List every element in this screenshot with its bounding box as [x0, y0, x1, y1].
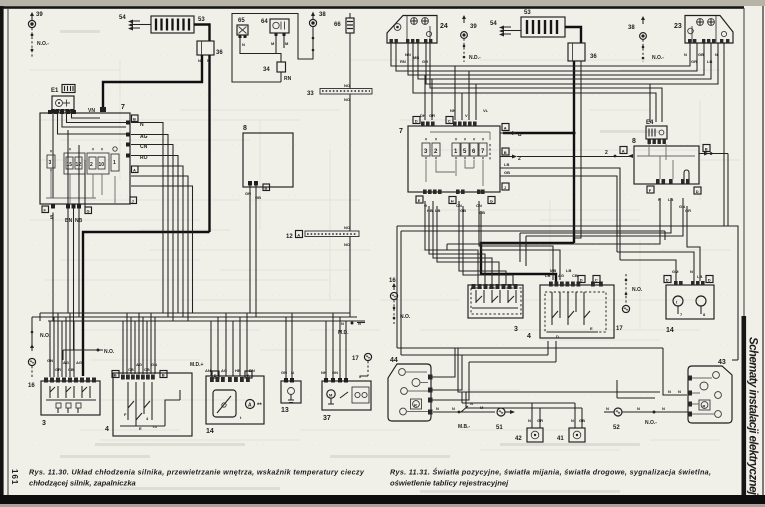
svg-text:CB: CB	[144, 367, 150, 372]
wires from cluster 7 right pins	[131, 123, 178, 322]
pin B out of unit 8 (right)	[699, 145, 728, 227]
wire drop E4 third	[649, 84, 651, 122]
bus wire 84 (right)	[426, 48, 718, 84]
svg-text:N: N	[606, 406, 609, 411]
svg-text:GB: GB	[579, 418, 585, 423]
svg-text:34: 34	[263, 67, 270, 73]
wires dropping into gauge unit 14	[190, 313, 255, 376]
number plate lamp bus wires	[458, 348, 660, 408]
svg-text:N: N	[668, 389, 671, 394]
wire GN from cluster 7 to loop (right)	[500, 162, 620, 260]
wires from unit 8 down	[250, 186, 256, 318]
svg-text:E: E	[418, 198, 421, 203]
svg-text:17: 17	[616, 326, 623, 332]
gauge 2 and 10 in cluster	[89, 157, 105, 169]
headlamp dimmer switch 4 (right)	[527, 268, 614, 340]
svg-text:39: 39	[36, 12, 43, 18]
svg-text:4: 4	[105, 426, 109, 433]
svg-text:51: 51	[496, 425, 503, 431]
connector 54 (left)	[119, 15, 151, 31]
svg-text:C: C	[448, 119, 451, 124]
svg-text:M.D.: M.D.	[338, 330, 349, 336]
pin J of cluster 7	[130, 197, 137, 204]
bulkhead strip 12-A (left)	[286, 231, 359, 241]
wires E1 into cluster 7	[53, 114, 126, 199]
svg-text:N: N	[690, 269, 693, 274]
control unit 8 (left)	[243, 125, 293, 200]
svg-text:16: 16	[28, 383, 35, 389]
fuse 34	[263, 62, 292, 82]
svg-text:GR: GR	[429, 113, 435, 118]
pin row CN on cluster 7	[126, 143, 148, 151]
license lamp 41	[557, 403, 585, 442]
svg-text:GR: GR	[55, 367, 61, 372]
svg-text:GB: GB	[504, 170, 510, 175]
svg-text:LB: LB	[545, 273, 550, 278]
svg-text:N.O.: N.O.	[40, 333, 51, 339]
svg-text:H: H	[451, 199, 454, 204]
svg-text:BN: BN	[65, 218, 73, 224]
svg-text:43: 43	[718, 359, 726, 366]
svg-text:Rys. 11.31. Światła pozycyjne,: Rys. 11.31. Światła pozycyjne, światła m…	[390, 468, 711, 477]
relay 64	[261, 19, 289, 36]
svg-text:GN: GN	[151, 362, 157, 367]
wires from cluster 7 bottom pins down	[53, 130, 85, 350]
svg-text:N: N	[198, 58, 201, 63]
caption Rys. 11.31	[390, 468, 711, 488]
svg-text:N.O.: N.O.	[104, 349, 115, 355]
sender 17 (right)	[616, 274, 643, 332]
connector 36 (left)	[197, 41, 223, 63]
svg-text:C: C	[595, 278, 598, 283]
svg-text:NO: NO	[344, 97, 350, 102]
svg-text:V: V	[465, 113, 468, 118]
svg-text:AG: AG	[63, 360, 69, 365]
svg-text:7: 7	[399, 128, 403, 135]
svg-text:oświetlenie tablicy rejestracy: oświetlenie tablicy rejestracyjnej	[390, 479, 509, 488]
pin wires below 23	[684, 43, 724, 64]
thick wire 36 to pin VN of cluster 7	[103, 55, 202, 107]
svg-text:NO: NO	[344, 83, 350, 88]
svg-text:GN: GN	[332, 370, 338, 375]
page number 161	[10, 469, 19, 485]
thick wire 36 down to bus (left)	[208, 55, 210, 232]
dip switch 3 (right)	[468, 284, 523, 333]
svg-text:38: 38	[628, 25, 635, 31]
svg-text:NN: NN	[450, 108, 456, 113]
bottom pins of cluster 7	[42, 204, 92, 224]
svg-text:N: N	[678, 389, 681, 394]
sidebar title Schematy instalacji elektrycznej	[747, 337, 759, 496]
connector pins of E1	[51, 109, 74, 114]
svg-text:AG: AG	[136, 362, 142, 367]
headlamp unit 23 (right side)	[674, 16, 733, 44]
svg-text:R: R	[703, 404, 706, 409]
svg-text:8: 8	[632, 138, 636, 145]
wire bus left ends to sender 16	[32, 313, 40, 345]
svg-text:24: 24	[440, 23, 448, 30]
svg-text:N: N	[358, 321, 361, 326]
svg-text:**: **	[257, 403, 262, 409]
headlamp unit 24 (left side)	[387, 16, 448, 44]
svg-text:NN: NN	[321, 370, 327, 375]
svg-text:N: N	[571, 418, 574, 423]
blower fan 37	[322, 378, 371, 422]
internal routing of cluster 7 (right)	[426, 132, 490, 186]
wire drops into cluster 7 top (right)	[420, 66, 489, 120]
wires cluster 7 to switch 3 (right)	[425, 201, 499, 285]
svg-text:GB: GB	[698, 52, 704, 57]
svg-text:M.B.-: M.B.-	[458, 424, 471, 430]
long bus wire y231 (right)	[401, 231, 665, 355]
svg-text:E4: E4	[646, 120, 654, 126]
switch positions 3 2 in cluster (right)	[422, 138, 440, 161]
wire N into 43	[617, 380, 655, 398]
wires dropping into switch 3	[47, 313, 82, 377]
pin wires below 24	[391, 43, 430, 64]
svg-text:10: 10	[99, 162, 105, 168]
svg-text:8: 8	[243, 125, 247, 132]
connector 36 (right)	[568, 43, 597, 61]
svg-text:N: N	[637, 406, 640, 411]
bus wire 93 to E4 (right)	[413, 48, 656, 122]
electric fan E1	[51, 85, 75, 111]
svg-text:A: A	[504, 126, 507, 131]
svg-text:A: A	[622, 149, 625, 154]
svg-text:A: A	[248, 403, 252, 409]
svg-text:HB: HB	[235, 368, 241, 373]
svg-text:LB: LB	[707, 59, 712, 64]
pin A into unit 8 (right)	[517, 147, 633, 159]
wire GB from cluster 7 to loop (right)	[500, 170, 617, 252]
svg-text:54: 54	[119, 15, 126, 21]
svg-text:14: 14	[206, 428, 214, 435]
lamp unit 14 (right)	[664, 269, 714, 334]
lighter element 66	[334, 13, 354, 33]
connector 54 (right)	[490, 21, 521, 37]
svg-text:53: 53	[524, 10, 531, 16]
wires dropping into fan unit 37	[321, 313, 346, 378]
svg-text:CB: CB	[572, 273, 578, 278]
svg-text:J: J	[504, 185, 506, 190]
svg-text:D: D	[415, 119, 418, 124]
svg-text:MB: MB	[550, 268, 556, 273]
svg-text:RN: RN	[284, 76, 292, 82]
svg-text:N: N	[684, 52, 687, 57]
wire N.O. marker below 39 (left)	[31, 28, 50, 58]
thermal fuse E4	[646, 120, 667, 144]
thick bus wire to switch 3 (left)	[83, 232, 210, 376]
svg-text:36: 36	[590, 54, 597, 60]
svg-text:N.O.-: N.O.-	[37, 41, 49, 47]
svg-text:LB: LB	[697, 274, 702, 279]
bottom pins of cluster 7 (right)	[416, 190, 495, 216]
svg-text:B: B	[162, 373, 165, 378]
svg-text:36: 36	[216, 50, 223, 56]
wires from unit 8 down left (right)	[447, 198, 700, 281]
lamp 1 in cluster	[111, 147, 119, 171]
svg-text:GR: GR	[685, 208, 691, 213]
svg-text:J: J	[132, 199, 134, 204]
pin B of cluster 7 (right)	[500, 148, 521, 162]
number plate lamp circuit wire	[433, 401, 495, 430]
svg-text:1: 1	[113, 160, 116, 166]
long bus wire y226 (right)	[397, 48, 738, 360]
relay 65	[237, 18, 248, 38]
svg-text:2: 2	[605, 150, 608, 156]
switch positions 1 5 6 7 in cluster (right)	[452, 138, 487, 161]
svg-text:E1: E1	[51, 88, 59, 94]
svg-text:GR: GR	[422, 59, 428, 64]
interior lamp 51	[496, 408, 515, 431]
svg-text:D: D	[580, 278, 583, 283]
bus wire 66 lamps (right)	[391, 48, 690, 66]
svg-text:B: B	[114, 373, 117, 378]
svg-text:33: 33	[307, 91, 314, 97]
svg-text:N: N	[291, 370, 294, 375]
svg-text:64: 64	[261, 19, 268, 25]
fuse box 53 (right)	[521, 10, 565, 37]
svg-text:AG: AG	[221, 368, 227, 373]
wire strip 12 down to bus	[344, 225, 350, 317]
gauge unit 14 (left)	[206, 371, 264, 435]
pin row RO on cluster 7	[126, 154, 148, 162]
bottom pins of unit 8 (right)	[647, 179, 701, 213]
cigarette lighter 13	[281, 378, 301, 414]
pin VN on cluster 7	[88, 107, 106, 114]
svg-text:N.D.-: N.D.-	[469, 55, 481, 61]
svg-text:M.D.+: M.D.+	[190, 362, 204, 368]
top pins of cluster 7	[48, 110, 76, 114]
svg-text:N.O.-: N.O.-	[645, 420, 657, 426]
pin row N on cluster 7	[126, 121, 144, 129]
svg-text:N: N	[662, 406, 665, 411]
svg-text:NO: NO	[344, 242, 350, 247]
internals of unit 8 (right)	[637, 144, 695, 179]
sender 16 (right)	[389, 278, 411, 324]
tail lamp unit 43	[688, 359, 733, 423]
license lamp 42	[515, 403, 543, 442]
svg-text:GB: GB	[479, 210, 485, 215]
battery feed 38 (right)	[628, 16, 664, 62]
caption Rys. 11.30	[29, 468, 365, 488]
bulkhead strip 33 (left)	[307, 89, 372, 98]
fuse box 53 (left)	[151, 16, 205, 33]
battery feed 39 (left)	[28, 12, 43, 28]
wire into 52 from left	[604, 406, 614, 412]
svg-text:2: 2	[90, 162, 93, 168]
svg-text:B: B	[705, 147, 708, 152]
svg-text:12: 12	[286, 234, 293, 240]
bus wire 75 (right)	[408, 48, 704, 75]
svg-text:42: 42	[515, 436, 522, 442]
svg-text:DH: DH	[420, 113, 426, 118]
svg-text:B: B	[133, 117, 136, 122]
wire 66 down through strip 33	[344, 33, 350, 232]
svg-text:16: 16	[389, 278, 396, 284]
svg-text:23: 23	[674, 23, 682, 30]
svg-text:D: D	[696, 189, 699, 194]
svg-text:15: 15	[67, 162, 73, 168]
wire from bus 43 top	[732, 359, 738, 361]
pin A of cluster 7 (right)	[500, 124, 522, 139]
svg-text:13: 13	[281, 407, 289, 414]
gauge 3 in cluster	[47, 150, 55, 173]
svg-text:7: 7	[121, 104, 125, 111]
svg-text:CB: CB	[68, 367, 74, 372]
svg-text:Schematy instalacji elektryczn: Schematy instalacji elektrycznej	[747, 337, 759, 496]
wire loop to lamp unit 14 (right)	[620, 260, 676, 281]
svg-text:53: 53	[198, 17, 205, 23]
sender 17 (left)	[352, 353, 372, 378]
svg-text:CB: CB	[128, 367, 134, 372]
instrument cluster 7 (left)	[40, 104, 138, 204]
gauge 15 and 12 in cluster	[66, 157, 82, 169]
svg-text:R: R	[414, 403, 417, 408]
svg-text:44: 44	[390, 357, 398, 364]
wires relay 64 down	[271, 36, 289, 54]
svg-text:G: G	[490, 199, 493, 204]
loop wire y355 (right)	[401, 341, 548, 390]
loop wires feeding tail lamp 44	[397, 348, 687, 395]
bus wire 88 to E4 (right)	[430, 48, 662, 122]
svg-text:N: N	[436, 406, 439, 411]
light switch cluster 7 (right)	[399, 117, 500, 193]
svg-text:E: E	[139, 426, 142, 431]
svg-text:54: 54	[490, 21, 497, 27]
svg-text:N: N	[341, 321, 344, 326]
svg-text:GN: GN	[47, 358, 53, 363]
svg-text:161: 161	[10, 469, 19, 485]
svg-text:12: 12	[76, 162, 82, 168]
interior lamp 52	[613, 406, 688, 431]
battery feed 39 (right)	[461, 15, 481, 62]
svg-text:NO: NO	[344, 225, 350, 230]
svg-text:A: A	[297, 232, 300, 237]
svg-text:D: D	[666, 278, 669, 283]
svg-text:VL: VL	[483, 108, 489, 113]
svg-text:AN: AN	[205, 368, 211, 373]
svg-text:B: B	[265, 186, 268, 191]
svg-text:GM: GM	[672, 269, 679, 274]
svg-text:3: 3	[49, 160, 52, 166]
svg-text:B: B	[504, 150, 507, 155]
svg-text:LB: LB	[504, 162, 509, 167]
right pin B of cluster 7	[132, 115, 139, 122]
wires dropping into lighter 13	[281, 313, 294, 378]
svg-text:3: 3	[514, 326, 518, 333]
wire loop N LB to lamp unit 14 (right)	[617, 252, 694, 281]
bus wire 71 (right)	[396, 48, 697, 71]
bus wire 79 (right)	[418, 48, 711, 79]
svg-text:65: 65	[238, 18, 245, 24]
svg-text:chłodzącej silnik, zapalniczka: chłodzącej silnik, zapalniczka	[29, 479, 136, 488]
svg-text:38: 38	[319, 12, 326, 18]
svg-text:4: 4	[527, 333, 531, 340]
svg-text:N: N	[242, 42, 245, 47]
loop wire y362 (right)	[431, 341, 556, 400]
svg-text:GN: GN	[281, 370, 287, 375]
svg-text:GR: GR	[691, 59, 697, 64]
svg-text:Rys. 11.30. Układ chłodzenia s: Rys. 11.30. Układ chłodzenia silnika, pr…	[29, 468, 365, 477]
svg-text:LB: LB	[435, 208, 440, 213]
svg-text:17: 17	[352, 356, 359, 362]
battery feed 38 (left)	[309, 12, 326, 52]
svg-text:RN: RN	[400, 59, 406, 64]
svg-text:3: 3	[42, 420, 46, 427]
svg-text:HB: HB	[427, 208, 433, 213]
svg-text:T4: T4	[152, 424, 157, 429]
wires dropping into heater switch 4	[123, 313, 157, 374]
svg-text:GR: GR	[537, 418, 543, 423]
svg-text:N.O.: N.O.	[632, 287, 643, 293]
svg-text:N: N	[452, 406, 455, 411]
wires cluster 7 mid pins down (right)	[459, 201, 513, 285]
sender 16 (left)	[28, 331, 51, 389]
svg-text:E: E	[590, 326, 593, 331]
svg-text:52: 52	[613, 425, 620, 431]
thick wire 36 to cluster 7 feed (right)	[503, 61, 576, 243]
bus wires lower left	[32, 313, 365, 321]
thick wire fuse 53 to connector 36 (right)	[565, 27, 581, 43]
svg-text:39: 39	[470, 24, 477, 30]
svg-text:AG: AG	[76, 360, 82, 365]
wire N.O. marker above switch 3	[63, 349, 115, 361]
wires cluster 7 right pins to switch 4 (right)	[479, 201, 560, 280]
svg-text:D: D	[708, 278, 711, 283]
svg-text:B: B	[518, 132, 522, 138]
heater blower switch 4 (left)	[105, 371, 192, 437]
thermal switch 3 (left)	[41, 378, 100, 428]
svg-text:14: 14	[666, 327, 674, 334]
wire loop from feed 38 around relays	[232, 14, 313, 83]
svg-text:N.O.: N.O.	[400, 314, 411, 320]
svg-text:AG: AG	[558, 273, 564, 278]
pin row AG on cluster 7	[126, 133, 148, 141]
wires from cluster 7 lower pins	[131, 166, 193, 321]
wire fuse 53 to connector 36 (left)	[194, 25, 210, 42]
svg-text:A: A	[133, 168, 136, 173]
svg-text:LB: LB	[566, 268, 571, 273]
wires joining dip switch drops (right)	[447, 233, 526, 266]
svg-text:N: N	[528, 418, 531, 423]
wire relay 65 to fuse 34	[240, 38, 281, 62]
svg-text:D: D	[556, 334, 559, 339]
svg-text:41: 41	[557, 436, 564, 442]
tail lamp unit 44	[388, 357, 433, 421]
wire junction M.D. center	[338, 321, 365, 336]
svg-text:G: G	[87, 209, 90, 214]
svg-text:37: 37	[323, 415, 331, 422]
wire to 44 top pin	[431, 348, 455, 377]
svg-text:N.O.-: N.O.-	[652, 55, 664, 61]
control unit 8 (right)	[632, 138, 699, 184]
thick wire 36 to dimmer switch 4 (right)	[481, 61, 581, 282]
svg-text:66: 66	[334, 22, 341, 28]
